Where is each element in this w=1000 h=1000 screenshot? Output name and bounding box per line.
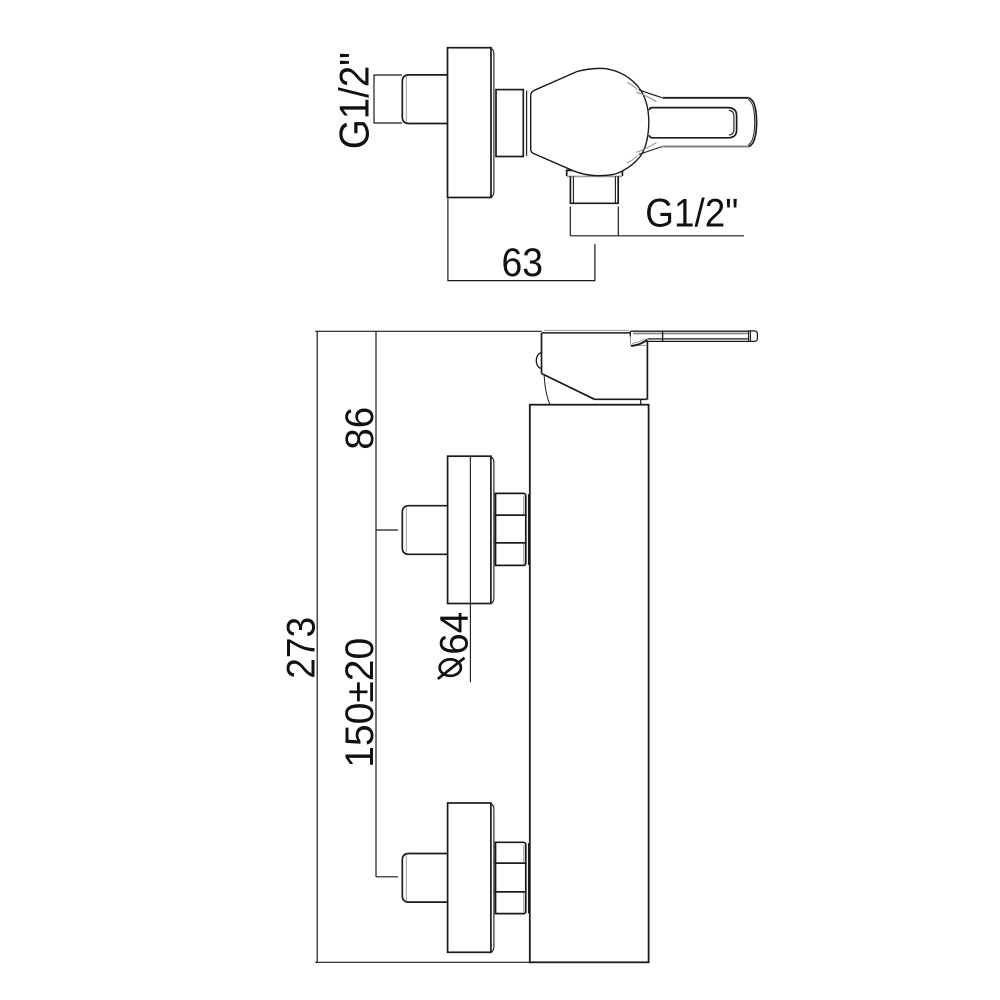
tick at upper nipple center (376, 529, 398, 531)
head left edge (541, 333, 543, 374)
upper hex nut (side view) (496, 493, 526, 515)
lever bar grey line (633, 332, 748, 334)
dim 63 line (448, 280, 595, 282)
dim 273 line (316, 331, 318, 962)
lever slot inner edge (729, 110, 734, 135)
body inner highlight arcs (top view) (627, 83, 638, 91)
label 273 (280, 617, 324, 679)
tick at lower nipple center (376, 876, 398, 878)
lever outer outline (top view) (663, 97, 749, 99)
label phi64 (433, 612, 477, 655)
label G1/2" (wall inlet, top view) (331, 52, 378, 149)
inlet nipple inner edge line (405, 77, 407, 123)
label 86 (338, 407, 382, 450)
upper nipple (side view) (402, 506, 447, 555)
lever neck bottom curves (top view) (639, 147, 662, 155)
lever tick (662, 331, 664, 341)
head top edge (side view) (542, 332, 632, 334)
head right edge (646, 342, 648, 400)
svg-text:86: 86 (338, 407, 382, 450)
lower flange 3D edge (491, 804, 494, 953)
lever notch vertical (629, 331, 631, 336)
label 150±20 (338, 638, 382, 768)
svg-text:273: 273 (280, 617, 324, 679)
lower nut collar line (528, 843, 530, 913)
mixer body (top view) (531, 68, 649, 175)
temperature ring bump (536, 353, 541, 369)
upper nut collar line (528, 494, 530, 565)
upper flange (side view) (448, 456, 491, 603)
top extension line (315, 330, 542, 332)
outlet collar (top view) (567, 170, 623, 176)
wall flange 3D edge (491, 49, 494, 198)
lever slot (top view) (649, 108, 736, 138)
outlet thread edge lines (573, 176, 615, 203)
outlet spout (top view) (570, 176, 618, 203)
upper flange 3D edge (491, 457, 494, 604)
upper nipple inner edge (405, 507, 407, 552)
diameter symbol of phi64 (440, 659, 461, 675)
G1/2" leader line (570, 235, 744, 237)
main body (side view) (530, 405, 649, 963)
outlet extension lines (570, 207, 618, 236)
connector edge band (526, 91, 528, 156)
outlet collar bottom band (567, 175, 622, 177)
head bottom edge (595, 398, 648, 400)
lever end cap arcs (top view) (748, 98, 756, 147)
lower flange (side view) (448, 803, 491, 952)
lever bar top (side view) (631, 330, 749, 332)
lower nipple inner edge (405, 855, 407, 900)
label G1/2" (outlet, top view) (645, 192, 738, 236)
head-body tick (640, 399, 642, 404)
connector cylinder (top view) (496, 90, 523, 157)
svg-text:G1/2": G1/2" (645, 192, 738, 236)
lever neck top curves (top view) (639, 90, 662, 98)
lever end cap (side view) (749, 331, 758, 342)
svg-text:63: 63 (502, 241, 544, 285)
lever notch wedge curve (631, 340, 647, 346)
thread bracket (inlet nipple, top view) (374, 75, 402, 123)
svg-text:G1/2": G1/2" (331, 52, 378, 149)
dim 86/150 line (375, 331, 377, 877)
head top grey edge (side view) (544, 329, 629, 331)
lever bar bottom lines (646, 339, 749, 342)
head diagonal bottom-left (542, 374, 595, 400)
svg-text:150±20: 150±20 (338, 638, 382, 768)
wall flange (top view) (448, 48, 492, 198)
bottom extension line (315, 961, 649, 963)
phi64 leader line (469, 456, 471, 682)
svg-text:64: 64 (433, 612, 477, 655)
lower hex nut (side view) (496, 842, 526, 863)
head inner curve (544, 376, 550, 405)
dim 63 extension lines (448, 199, 595, 281)
lower nipple (side view) (402, 854, 447, 903)
inlet nipple (top view) (402, 75, 447, 124)
label 63 (502, 241, 544, 285)
